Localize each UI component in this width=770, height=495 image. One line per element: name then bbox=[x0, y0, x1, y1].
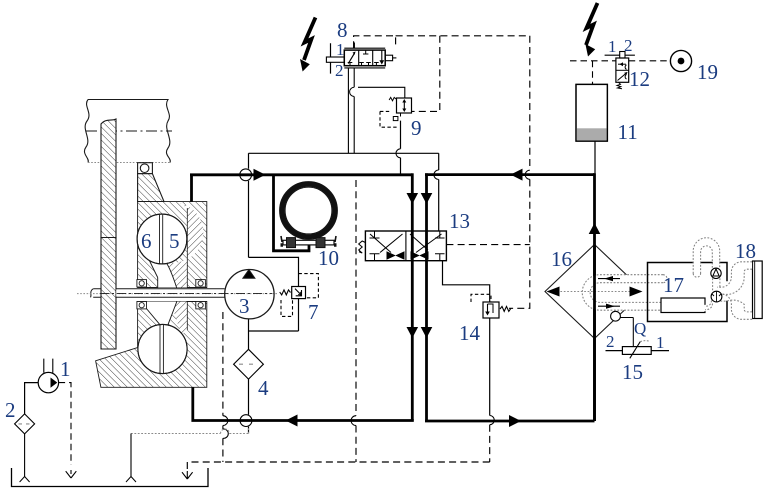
hop circle at main crossing bbox=[240, 169, 252, 181]
fan/pump circles on exhaust bbox=[711, 268, 722, 302]
flywheel bar (vertical hatched) bbox=[101, 119, 116, 349]
arrow down into valve13 right bbox=[421, 193, 433, 204]
shaft bearings (4 small) bbox=[137, 280, 206, 309]
arrow into tank from drain rail bbox=[182, 471, 193, 479]
filter 4 bbox=[234, 349, 264, 379]
right square X arrows bbox=[410, 234, 442, 253]
wire: pilot rail y153 bbox=[249, 152, 439, 154]
flow ticks on cooler pipes bbox=[598, 276, 620, 309]
svg-text:17: 17 bbox=[663, 273, 684, 297]
radiator pipes (white body) bbox=[717, 266, 752, 316]
svg-text:5: 5 bbox=[169, 229, 180, 253]
pilot dashed of valve7 bbox=[299, 274, 319, 298]
output shaft (horizontal rod through pump) bbox=[116, 289, 225, 296]
solenoid valve 12 bbox=[605, 52, 635, 89]
wire: cooler riser (through heat exchanger) bbox=[593, 173, 596, 421]
svg-text:Q: Q bbox=[634, 319, 646, 338]
left square port Ts bbox=[370, 231, 380, 261]
bearing (top, box with ball) bbox=[138, 163, 153, 174]
retarder lower body (hatched) bbox=[96, 302, 207, 388]
left port line and block bbox=[330, 43, 332, 73]
rotor hub (hatched) bbox=[138, 174, 164, 202]
hop arc bbox=[434, 170, 439, 180]
svg-text:8: 8 bbox=[337, 18, 348, 42]
stator overlay upper (opposite hatch) bbox=[166, 203, 203, 288]
tank reservoir bbox=[12, 468, 209, 487]
svg-text:4: 4 bbox=[258, 376, 269, 400]
dashed leak line from pump1 bbox=[59, 383, 71, 465]
lightning bolt left bbox=[304, 18, 316, 61]
directional valve 13 bbox=[359, 231, 447, 261]
radiator pipes (dotted outline) bbox=[717, 262, 752, 320]
dashed pilot network bbox=[187, 36, 530, 471]
drain: retarder seal line bbox=[222, 312, 224, 416]
wire: valve13 right-top riser bbox=[425, 173, 428, 231]
THIN bbox=[240, 121, 595, 434]
svg-text:16: 16 bbox=[551, 247, 572, 271]
wire: tank11 drop line bbox=[594, 142, 596, 174]
upper toroid chamber (white) bbox=[137, 214, 187, 264]
svg-text:12: 12 bbox=[629, 67, 650, 91]
svg-text:18: 18 bbox=[735, 239, 756, 263]
pipe end feet in tank bbox=[20, 477, 136, 483]
air tank 11 bbox=[576, 84, 607, 141]
pilot: rail to right bbox=[396, 35, 530, 37]
middle square Ts bbox=[359, 50, 371, 66]
svg-text:1: 1 bbox=[336, 40, 345, 59]
lightning bolt right bbox=[586, 3, 598, 45]
wire: filter2 to tank bbox=[24, 434, 26, 477]
hop arcs on dashed lines bbox=[223, 170, 530, 438]
muffler block in 17 bbox=[661, 298, 705, 313]
pilot: drop to valve9 bbox=[412, 36, 440, 112]
wire: retarder top outlet to main line bbox=[190, 175, 193, 202]
wire: valve13 right-bottom to cooler bbox=[425, 261, 428, 421]
wire: pump3 outlet riser (with hop over main) bbox=[248, 153, 250, 257]
white seam gap above lower chamber bbox=[146, 302, 176, 327]
wire: valve9 top feed bbox=[358, 87, 405, 98]
valve8 drop lines to rail bbox=[348, 68, 354, 153]
white seam gap below upper chamber bbox=[149, 259, 177, 288]
spring w of valve7 bbox=[280, 290, 291, 295]
cooler U-pipe (dotted outline) bbox=[582, 275, 667, 311]
svg-text:1: 1 bbox=[608, 37, 617, 56]
wire: pump1 to filter2 bbox=[25, 383, 39, 414]
right square: vertical arrow down bbox=[381, 50, 383, 61]
MECH bbox=[77, 100, 278, 388]
arrow left on retarder return bbox=[286, 415, 298, 427]
stator overlay lower (opposite hatch) bbox=[170, 302, 187, 336]
retarder upper body (rotor+stator+housing, hatched) bbox=[138, 202, 207, 288]
svg-text:1: 1 bbox=[656, 333, 665, 352]
arrow right on cooler run bbox=[509, 415, 521, 427]
wire: valve13 bottom to valve14 bbox=[443, 261, 490, 302]
svg-text:7: 7 bbox=[308, 300, 319, 324]
left square X arrows bbox=[370, 234, 403, 253]
wire: filter4 suction drop (hop over return main) bbox=[248, 379, 250, 433]
wire: pilot rail drop to valve13 (hop over main) bbox=[438, 153, 440, 231]
arrow left on top-right main bbox=[511, 169, 523, 181]
clamp 10 bbox=[280, 182, 338, 248]
arrow up on cooler riser bbox=[589, 223, 601, 234]
svg-text:2: 2 bbox=[624, 36, 633, 55]
svg-text:15: 15 bbox=[622, 360, 643, 384]
wire: valve13 left-bottom to retarder return bbox=[411, 261, 414, 421]
arrow right on supply bbox=[254, 169, 266, 181]
radiator 18 bbox=[753, 261, 763, 319]
svg-text:6: 6 bbox=[141, 229, 152, 253]
svg-text:1: 1 bbox=[60, 357, 71, 381]
svg-text:11: 11 bbox=[618, 120, 638, 144]
pilot: valve8 box bbox=[354, 36, 396, 48]
pressure source 19 bbox=[670, 50, 691, 71]
relief valve 14 bbox=[471, 294, 511, 318]
wire: thick cooler riser redrawn over pipes bbox=[593, 245, 596, 422]
wire: tank drop at x131 bbox=[130, 434, 132, 477]
shaft centerline (dash-dot) bbox=[86, 130, 172, 132]
drain: valve14 to tank rail bbox=[489, 425, 491, 462]
suction line (gray dotted) from tank to filter4 bbox=[131, 427, 249, 434]
flow control valve 15 bbox=[606, 311, 670, 358]
relief valve 7 bbox=[280, 274, 319, 317]
dotted double-arrow through diamond bbox=[557, 291, 632, 293]
right square port Ts bbox=[435, 231, 445, 261]
wire: clamp pipe (component 10 branch) bbox=[274, 175, 310, 251]
svg-text:2: 2 bbox=[606, 332, 615, 351]
svg-text:2: 2 bbox=[5, 398, 16, 422]
THICK bbox=[190, 173, 595, 421]
reducing valve 9 bbox=[380, 97, 412, 127]
wire: retarder return bottom bbox=[193, 387, 414, 420]
arrow down below valve13 left bbox=[407, 327, 419, 338]
svg-text:13: 13 bbox=[449, 209, 470, 233]
svg-text:14: 14 bbox=[459, 321, 481, 345]
lower toroid chamber (white) bbox=[138, 324, 187, 373]
arrow down below valve13 right bbox=[421, 327, 433, 338]
filter 2 bbox=[15, 414, 35, 477]
heat exchanger 16 diamond bbox=[545, 245, 644, 339]
pump 3 enclosure: top/right/bottom bbox=[249, 257, 299, 349]
svg-text:2: 2 bbox=[335, 61, 344, 80]
cooler U-pipe (white body) bbox=[582, 275, 665, 311]
svg-text:3: 3 bbox=[239, 294, 250, 318]
actuator box right bbox=[385, 55, 392, 61]
prop valve 8 bbox=[326, 43, 404, 154]
input shaft cylinder (top left, with break lines) bbox=[84, 100, 170, 163]
pilot: valve13 tap bbox=[446, 244, 529, 246]
spring w of valve13 bbox=[359, 241, 366, 253]
dashed air lines bbox=[570, 61, 670, 85]
wire: valve9 drain drop (hop over y153) bbox=[400, 121, 402, 175]
svg-text:10: 10 bbox=[318, 246, 339, 270]
arrow down into valve13 left bbox=[407, 193, 419, 204]
exhaust U-loop over 17 (white body) bbox=[697, 241, 716, 308]
wire: main line top-right bbox=[425, 173, 595, 176]
svg-text:19: 19 bbox=[697, 60, 718, 84]
left square diagonal arrow bbox=[348, 53, 354, 63]
pump 3 bbox=[225, 270, 274, 319]
wire: valve14 down to cooler run (hop) bbox=[489, 318, 491, 416]
drain: valve13 spring line bbox=[355, 180, 357, 416]
aux pump 1 bbox=[25, 359, 59, 414]
top stub bbox=[353, 43, 355, 49]
engine box 17 bbox=[648, 263, 728, 322]
exhaust U-loop over 17 (dotted outline) bbox=[693, 238, 720, 310]
pilot: main drop to valve14 (hop over main y175) bbox=[529, 36, 531, 170]
wire: main line to valve13 left-top bbox=[411, 173, 414, 231]
wire: thick mains crossing valve13 body bbox=[412, 231, 426, 261]
wire: main supply line top-left bbox=[190, 173, 412, 176]
wire: cooler bottom run bbox=[425, 420, 595, 423]
svg-text:9: 9 bbox=[411, 116, 422, 140]
flow arrows on mains bbox=[254, 169, 601, 427]
